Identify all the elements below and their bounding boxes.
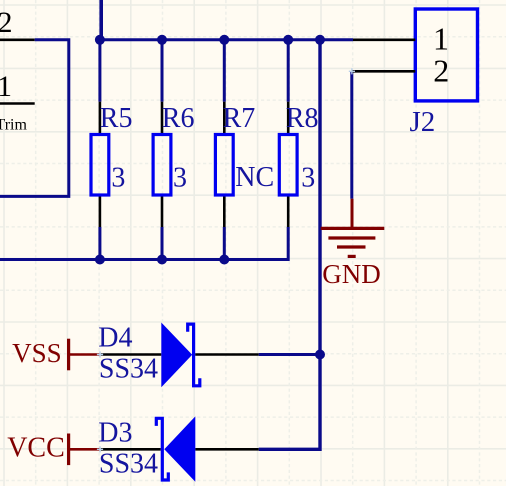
svg-text:R8: R8 — [286, 103, 319, 134]
wire bus to R5 — [98, 40, 101, 102]
svg-text:VSS: VSS — [12, 338, 62, 368]
hotspot cross at VSS/D4 pin joint — [97, 351, 103, 357]
wire J2 pin2 down to ground — [350, 71, 353, 198]
junction on lower bus at R6 — [157, 255, 167, 265]
svg-text:3: 3 — [173, 162, 187, 193]
svg-text:R6: R6 — [162, 103, 195, 134]
junction on top bus at R5 — [95, 35, 105, 45]
svg-text:3: 3 — [301, 162, 315, 193]
power port VSS — [69, 339, 101, 371]
power port VCC — [69, 434, 101, 466]
resistor R5 — [91, 102, 109, 227]
wire D4 cathode to vertical net — [259, 353, 320, 356]
svg-text:3: 3 — [111, 162, 125, 193]
junction on top bus at R7 — [219, 35, 229, 45]
wire from pin 2 right-down-left — [0, 40, 69, 197]
pin 2 of J2 — [352, 52, 449, 88]
wire vertical from top edge into bus — [99, 0, 103, 40]
wire lower bus with corner up to R8 — [0, 227, 288, 260]
svg-text:1: 1 — [0, 70, 12, 103]
svg-text:J2: J2 — [410, 106, 436, 138]
pin 1 of left component — [0, 70, 35, 104]
diode D4 (schottky, pointing right) — [101, 323, 259, 388]
resistor R6 — [153, 102, 171, 227]
svg-text:SS34: SS34 — [99, 449, 158, 480]
pin 2 of left component — [0, 6, 35, 40]
svg-text:GND: GND — [322, 259, 381, 289]
wire vertical J2/diode net with corner to D3 — [259, 40, 320, 450]
hotspot cross at J2 pin2 wire start — [349, 68, 355, 74]
junction at D4 cathode net — [315, 350, 325, 360]
junction on top bus at J2 branch — [315, 35, 325, 45]
svg-text:D4: D4 — [98, 322, 132, 353]
wire top bus — [100, 38, 353, 41]
diode D3 (schottky, pointing left) — [101, 416, 259, 481]
wire R5 to lower bus — [98, 227, 101, 260]
wire R7 to lower bus — [223, 227, 226, 260]
wire bus to R6 — [161, 40, 164, 102]
svg-text:VCC: VCC — [7, 432, 65, 463]
svg-text:R5: R5 — [100, 103, 133, 134]
svg-text:SS34: SS34 — [99, 354, 158, 385]
resistor R8 — [279, 102, 297, 227]
junction on lower bus at R5 — [95, 255, 105, 265]
wire bus to R7 — [223, 40, 226, 102]
junction on lower bus at R7 — [219, 255, 229, 265]
svg-text:2: 2 — [433, 52, 449, 88]
connector J2 body — [415, 9, 477, 101]
hotspot cross at VCC/D3 pin joint — [97, 446, 103, 452]
svg-text:2: 2 — [0, 6, 13, 39]
wire bus to R8 — [287, 40, 290, 102]
svg-text:R7: R7 — [223, 103, 256, 134]
svg-text:Trim: Trim — [0, 116, 27, 133]
junction on top bus at R6 — [157, 35, 167, 45]
wire R6 to lower bus — [161, 227, 164, 260]
resistor R7 — [215, 102, 233, 227]
svg-text:1: 1 — [433, 20, 449, 56]
svg-text:D3: D3 — [98, 417, 132, 448]
ground symbol — [321, 199, 385, 257]
svg-text:NC: NC — [235, 162, 274, 193]
pin 1 of J2 — [353, 20, 449, 56]
junction on top bus at R8 — [283, 35, 293, 45]
